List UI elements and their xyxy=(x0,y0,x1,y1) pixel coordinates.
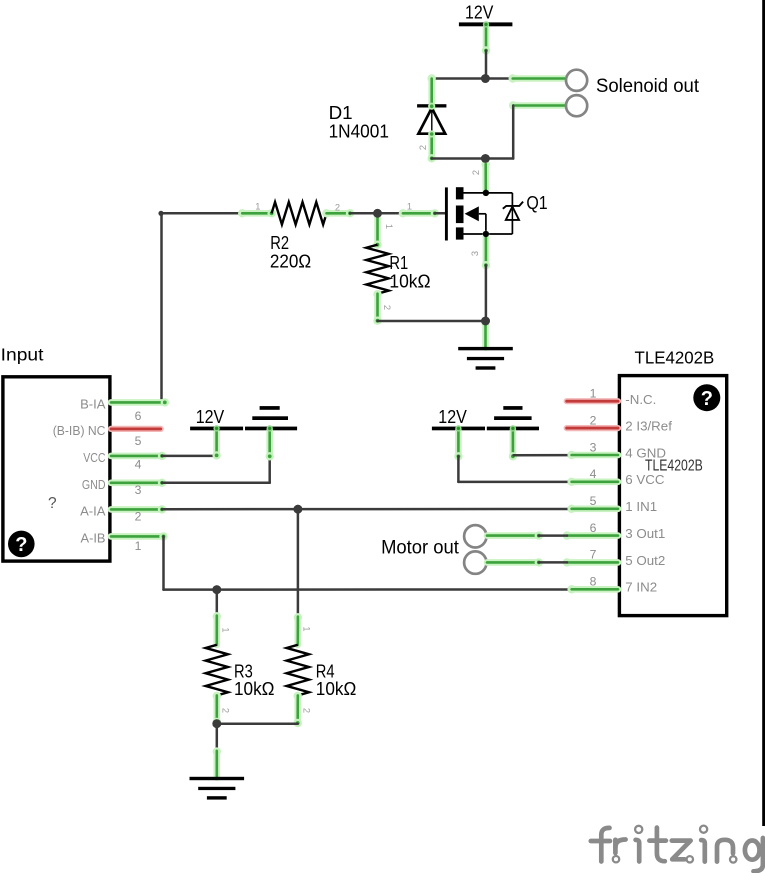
wire 12V pin to junction A xyxy=(482,28,490,79)
R1 pin 2 wire xyxy=(373,290,381,325)
svg-text:220Ω: 220Ω xyxy=(270,250,311,271)
R3 pin 2 wire xyxy=(213,692,221,726)
U1 pin 4 wire VCC xyxy=(567,478,618,486)
svg-text:1: 1 xyxy=(135,539,142,553)
junction G xyxy=(212,719,221,728)
R3 pin 1 wire xyxy=(213,612,221,645)
svg-text:1: 1 xyxy=(255,202,260,212)
Input pin 4 wire VCC xyxy=(111,452,217,460)
svg-text:7 IN2: 7 IN2 xyxy=(625,581,657,595)
svg-text:TLE4202B: TLE4202B xyxy=(635,348,715,368)
junction D xyxy=(373,209,382,218)
power symbol 12V right xyxy=(432,406,485,430)
svg-text:A-IB: A-IB xyxy=(81,532,106,546)
R2 pin 1 wire xyxy=(238,209,276,217)
transistor Q1 MOSFET symbol xyxy=(446,187,523,240)
svg-text:?: ? xyxy=(701,388,713,410)
IC U1 TLE4202B body xyxy=(619,376,726,616)
diode D1 symbol xyxy=(417,104,446,134)
frame right border xyxy=(762,0,765,826)
svg-text:3 Out1: 3 Out1 xyxy=(625,527,665,541)
svg-text:?: ? xyxy=(15,534,27,556)
svg-text:1: 1 xyxy=(302,626,312,631)
Q1 source terminal dot xyxy=(483,231,489,237)
svg-text:2: 2 xyxy=(590,413,597,427)
Input pin 2 wire A-IA xyxy=(111,505,166,513)
wire A-IB down and right to IN2 xyxy=(164,536,572,589)
resistor R3 body xyxy=(206,645,228,696)
power symbol +12V top xyxy=(459,2,513,27)
svg-text:1: 1 xyxy=(384,224,394,229)
diode D1 terminal glows xyxy=(428,103,435,138)
ground symbol bottom xyxy=(190,777,245,800)
svg-text:Motor out: Motor out xyxy=(381,537,459,558)
R1 value labels xyxy=(389,252,430,292)
R3 value labels xyxy=(234,660,275,699)
wire right 12V down to VCC run xyxy=(454,430,571,482)
wire junction A left to diode top corner xyxy=(432,77,513,80)
Input mystery-part badge xyxy=(8,531,35,558)
fritzing logo xyxy=(591,828,763,872)
wire vertical through diode D1 xyxy=(428,74,436,162)
wire R2 to junction D to gate wire xyxy=(350,212,403,215)
wire junction F down to R3 xyxy=(216,590,219,616)
junction A xyxy=(481,74,490,83)
svg-text:(B-IB) NC: (B-IB) NC xyxy=(53,424,106,438)
solenoid connector J1 circle 2 xyxy=(566,95,587,116)
svg-text:5 Out2: 5 Out2 xyxy=(625,554,665,568)
wire junction E down to R4 xyxy=(297,509,300,616)
wire corner to R2 pin 1 xyxy=(158,211,242,216)
svg-text:1N4001: 1N4001 xyxy=(329,120,389,141)
junction dots redrawn on top xyxy=(212,74,490,728)
svg-text:-N.C.: -N.C. xyxy=(625,393,656,407)
wire up to left 12V supply xyxy=(212,430,220,459)
U1 mystery-part badge xyxy=(693,384,720,411)
wire right ground down to GND run xyxy=(509,430,572,460)
wire bottom of diode to junction B xyxy=(432,157,514,160)
resistor R4 body xyxy=(287,645,309,696)
svg-text:Solenoid out: Solenoid out xyxy=(596,76,700,97)
svg-text:2: 2 xyxy=(335,203,340,213)
R2 value labels xyxy=(270,232,311,271)
wire left vertical B-IA to R2 corner xyxy=(160,213,163,402)
wire junction B down to Q1 drain xyxy=(482,160,490,193)
motor connector circle 2 xyxy=(464,551,486,573)
fritzing logo via dots xyxy=(613,826,737,863)
svg-text:5: 5 xyxy=(135,434,142,448)
svg-text:4: 4 xyxy=(590,467,597,481)
svg-text:7: 7 xyxy=(590,548,597,562)
U1 pin 6 wire Out1 xyxy=(563,531,618,539)
U1 pin 2 red stub xyxy=(567,425,618,431)
solenoid connector J1 circle 1 xyxy=(566,70,587,91)
U1 pin 7 wire Out2 xyxy=(563,558,618,566)
Input pin 5 wire (B-IB) NC red stub xyxy=(111,426,161,432)
Input module U2 body xyxy=(3,377,110,561)
svg-text:1: 1 xyxy=(220,627,230,632)
wire motor pin 1 to Out1 xyxy=(487,531,567,539)
svg-text:6: 6 xyxy=(590,521,597,535)
U1 pin 1 red stub xyxy=(567,398,618,404)
R2 pin 2 wire xyxy=(322,209,354,217)
svg-text:2: 2 xyxy=(302,708,312,713)
svg-text:2 I3/Ref: 2 I3/Ref xyxy=(625,420,672,434)
svg-text:2: 2 xyxy=(471,170,481,175)
power symbol 12V left xyxy=(190,406,243,430)
wire A-IA to IN1 long run xyxy=(162,508,572,511)
U1 pin 3 wire GND xyxy=(567,451,618,459)
Input pin 3 wire GND xyxy=(111,457,270,487)
svg-text:3: 3 xyxy=(470,251,480,256)
svg-text:2: 2 xyxy=(382,305,392,310)
junction B xyxy=(481,154,490,163)
Q1 drain terminal dot xyxy=(483,190,489,196)
svg-text:A-IA: A-IA xyxy=(80,505,106,519)
svg-text:Input: Input xyxy=(1,344,44,364)
R1 pin 1 wire xyxy=(373,215,381,249)
wire junction G down to ground xyxy=(213,724,221,778)
svg-text:10kΩ: 10kΩ xyxy=(316,678,357,699)
svg-text:VCC: VCC xyxy=(83,451,105,465)
svg-text:4: 4 xyxy=(135,458,142,472)
Q1 source wire down xyxy=(482,234,490,321)
svg-text:6: 6 xyxy=(135,409,142,423)
wire R4 bottom to junction G xyxy=(217,722,298,725)
svg-text:3: 3 xyxy=(135,483,142,497)
svg-text:12V: 12V xyxy=(465,2,494,23)
svg-text:4 GND: 4 GND xyxy=(625,446,666,460)
R4 value labels xyxy=(316,660,357,699)
svg-text:Q1: Q1 xyxy=(526,192,547,213)
Input pin 1 wire A-IB xyxy=(111,532,168,540)
svg-text:2: 2 xyxy=(135,510,142,524)
Q1 gate wire xyxy=(399,209,445,217)
ground symbol right (inverted) xyxy=(487,406,539,430)
svg-text:10kΩ: 10kΩ xyxy=(234,678,275,699)
label D1 1N4001 xyxy=(329,102,389,141)
ground symbol left (inverted) xyxy=(245,406,297,430)
wire up to left ground symbol xyxy=(266,430,274,460)
resistor R2 body xyxy=(272,202,327,224)
wire R1 bottom to junction C xyxy=(378,320,486,323)
U1 pin 8 wire IN2 xyxy=(567,585,618,593)
svg-text:8: 8 xyxy=(590,575,597,589)
svg-text:1 IN1: 1 IN1 xyxy=(625,500,657,514)
svg-text:3: 3 xyxy=(590,440,597,454)
junction E xyxy=(294,505,303,514)
R4 pin 1 wire xyxy=(294,613,302,645)
svg-text:5: 5 xyxy=(590,494,597,508)
ground symbol under Q1 xyxy=(458,347,513,370)
svg-text:?: ? xyxy=(48,495,57,512)
R4 pin 2 wire xyxy=(294,692,302,727)
svg-text:2: 2 xyxy=(418,145,428,150)
svg-text:GND: GND xyxy=(82,478,106,492)
wire motor pin 2 to Out2 xyxy=(487,558,567,566)
junction C xyxy=(481,317,490,326)
supply bar terminal glows xyxy=(213,21,516,431)
svg-text:12V: 12V xyxy=(438,406,467,427)
wire solenoid pin 2 to corner xyxy=(509,101,566,158)
svg-text:10kΩ: 10kΩ xyxy=(389,270,430,291)
motor connector circle 1 xyxy=(464,525,486,547)
svg-text:12V: 12V xyxy=(196,406,225,427)
wire junction C to ground xyxy=(481,319,489,348)
svg-text:1: 1 xyxy=(407,202,412,212)
junction F xyxy=(212,585,221,594)
Input pin 6 wire B-IA xyxy=(111,398,169,406)
svg-text:1: 1 xyxy=(590,387,597,401)
wire junction A to solenoid pin 1 xyxy=(509,74,567,82)
resistor R1 body xyxy=(366,245,388,294)
svg-text:B-IA: B-IA xyxy=(80,398,106,412)
U1 pin 5 wire IN1 xyxy=(567,505,618,513)
svg-text:2: 2 xyxy=(220,708,230,713)
svg-text:6 VCC: 6 VCC xyxy=(625,473,664,487)
